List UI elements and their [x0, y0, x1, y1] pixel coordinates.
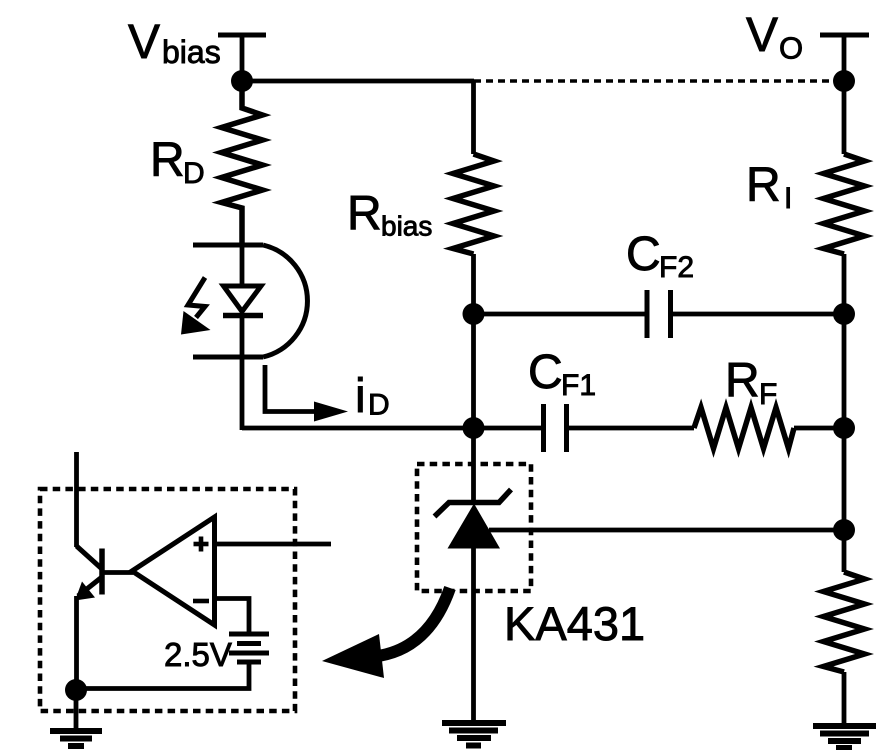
svg-text:V: V [746, 9, 778, 62]
svg-text:C: C [626, 228, 661, 281]
wire op-amp minus input to battery [215, 599, 250, 635]
svg-text:C: C [528, 346, 563, 399]
junction at emitter/ground node [65, 679, 87, 701]
svg-text:O: O [779, 31, 803, 66]
svg-text:bias: bias [381, 211, 432, 242]
wire dashed rail to Vo node [474, 79, 844, 83]
junction at Vo node [833, 70, 855, 92]
wire RF node down to ref node [842, 428, 847, 530]
diode LED triangle [224, 286, 262, 312]
ground right [813, 726, 876, 748]
junction at CF2/RI node [833, 303, 855, 325]
label Rbias [347, 188, 432, 242]
svg-text:R: R [150, 134, 185, 187]
KA431 cathode zener bar [435, 490, 512, 517]
resistor RF [694, 408, 794, 449]
junction at CF1 row left node [463, 417, 485, 439]
wire lower divider resistor top [842, 530, 847, 572]
label KA431 [504, 597, 645, 650]
wire Vbias terminal to node [240, 35, 245, 81]
capacitor CF2 [647, 290, 671, 338]
wire CF1 to RF [567, 426, 695, 431]
wire RI to CF2 node [842, 254, 847, 314]
wire LED cathode down to iD corner [240, 316, 245, 431]
node Vo label [746, 9, 803, 66]
wire CF2 row right [671, 312, 845, 317]
internal model dashed box [40, 489, 295, 711]
label RF [725, 355, 777, 412]
junction at Vbias node [231, 70, 253, 92]
wire Q1 base to op-amp output [102, 570, 133, 575]
svg-text:2.5V: 2.5V [164, 636, 232, 673]
wire lower divider resistor to ground [842, 672, 847, 726]
ground left [50, 731, 102, 746]
label RI [746, 159, 792, 215]
svg-text:I: I [784, 182, 792, 215]
wire battery to ground rail [77, 662, 250, 689]
svg-text:V: V [128, 16, 160, 69]
label 2.5V [164, 636, 232, 673]
wire top rail Vbias to Rbias column [242, 79, 474, 84]
wire KA431 reference pin row [489, 528, 844, 533]
callout curved arrow [322, 588, 450, 678]
resistor R lower divider [824, 572, 865, 672]
current iD indicator arrow [265, 365, 348, 422]
wire CF2 node down to CF1 node [471, 314, 476, 428]
node Vbias label [128, 16, 221, 70]
wire CF2 row left [474, 312, 648, 317]
wire CF1 node down to KA431 cathode [471, 428, 476, 504]
resistor Rbias [453, 154, 494, 254]
transistor Q1 emitter arrowhead [75, 582, 95, 601]
label iD [355, 370, 390, 423]
wire CF1 row left [474, 426, 544, 431]
Vo terminal bar [820, 33, 869, 38]
svg-text:KA431: KA431 [504, 597, 645, 650]
label RD [150, 134, 205, 190]
svg-text:bias: bias [162, 34, 221, 70]
resistor RI [824, 154, 865, 254]
optocoupler LED package bottom lead [193, 355, 263, 360]
svg-text:R: R [725, 355, 760, 408]
wire CF2 node to RF node [842, 314, 847, 428]
wire RD to LED anode [240, 245, 245, 287]
junction at Rbias/CF2 node [463, 303, 485, 325]
wire RF to right node [794, 426, 844, 431]
op-amp minus sign [193, 599, 209, 604]
Vbias terminal bar [218, 33, 266, 38]
wire Q1 collector stub [74, 452, 79, 547]
wire LED anode row to CF1 node [242, 426, 474, 431]
svg-text:R: R [746, 159, 781, 212]
svg-text:D: D [183, 157, 205, 190]
svg-text:R: R [347, 188, 382, 241]
light emission lightning arrow [181, 278, 211, 335]
wire RI column top [842, 81, 847, 154]
wire Q1 emitter down [74, 596, 79, 690]
junction at reference divider node [833, 519, 855, 541]
wire KA431 anode to ground [471, 548, 476, 723]
ground middle [442, 723, 506, 746]
capacitor CF1 [544, 404, 567, 452]
svg-text:D: D [368, 389, 390, 422]
svg-text:F1: F1 [561, 369, 596, 402]
wire Vo terminal to node [842, 35, 847, 81]
resistor RD [222, 81, 263, 245]
optocoupler LED package arc [263, 245, 307, 357]
svg-text:i: i [355, 370, 366, 423]
KA431 triangle [448, 504, 501, 549]
optocoupler LED package top lead [193, 243, 263, 248]
wire Rbias to CF2 node [471, 254, 476, 314]
transistor Q1 [77, 546, 103, 596]
op-amp U2 [132, 517, 215, 625]
svg-text:F: F [759, 378, 777, 411]
junction at RF right node [833, 417, 855, 439]
battery V1 2.5V [229, 634, 269, 662]
label CF1 [528, 346, 596, 402]
wire op-amp plus input to REF [215, 542, 332, 547]
diode LED cathode bar [223, 313, 263, 319]
shunt regulator U1 KA431 dashed box [417, 464, 531, 591]
label CF2 [626, 228, 694, 284]
wire node to left ground [74, 690, 79, 730]
op-amp plus sign [194, 537, 209, 552]
svg-text:F2: F2 [659, 251, 694, 284]
wire Rbias column top [471, 81, 476, 154]
